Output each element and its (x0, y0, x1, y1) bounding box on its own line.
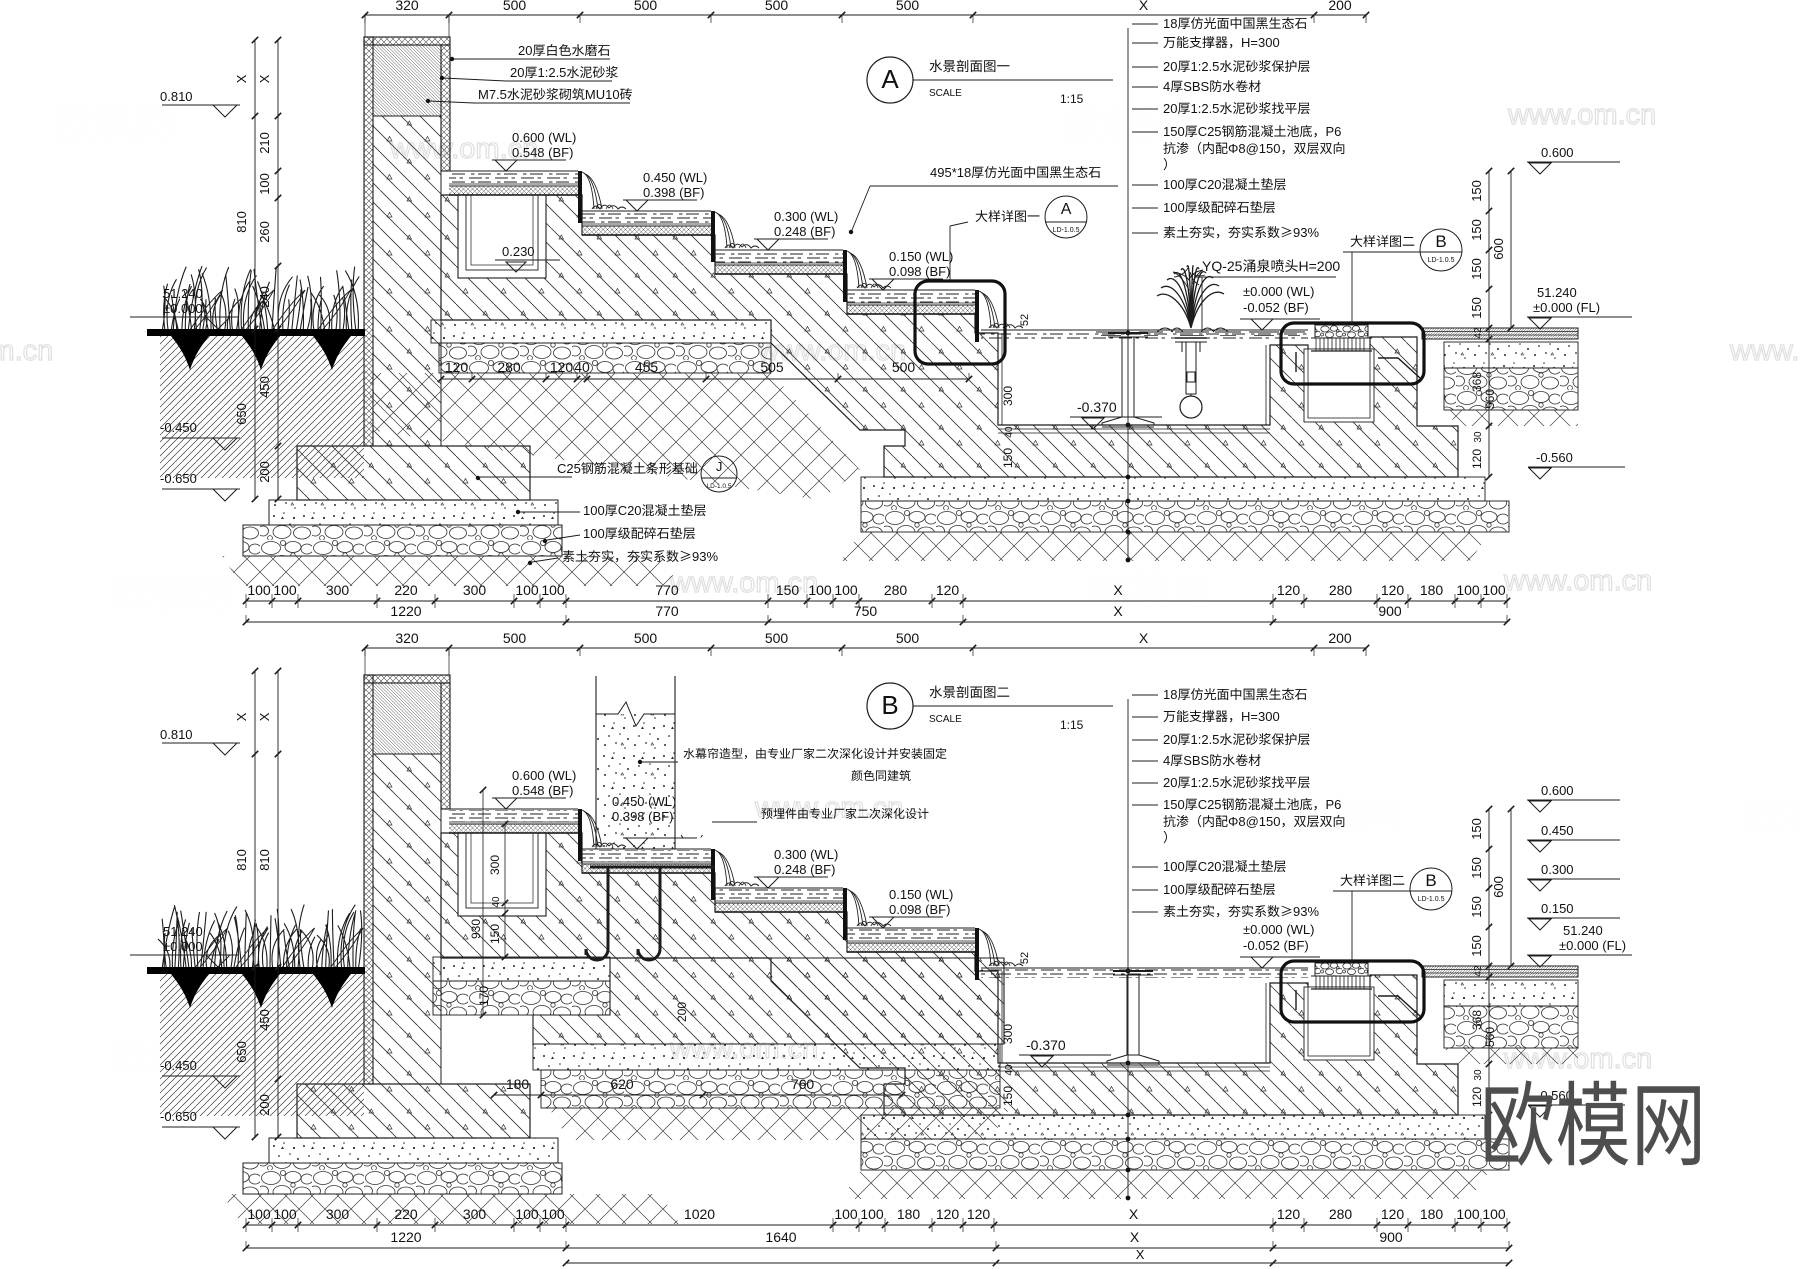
right level 0.600 (1541, 145, 1574, 160)
upper zone gravel cushion (439, 343, 771, 373)
svg-text:120: 120 (1470, 1087, 1484, 1107)
detail box 大样详图二 (1281, 961, 1424, 1022)
svg-text:X: X (257, 74, 272, 83)
detail bubble B (1420, 229, 1462, 271)
svg-text:42: 42 (1473, 965, 1484, 977)
detail box internal leaders (1295, 990, 1297, 1010)
svg-text:30: 30 (1473, 1069, 1484, 1081)
svg-text:150: 150 (1469, 258, 1484, 280)
B level-2 concrete cushion (533, 1044, 1000, 1070)
svg-text:51.240: 51.240 (163, 924, 203, 939)
rammed soil under footing (222, 1194, 680, 1224)
svg-text:C20: C20 (1198, 177, 1222, 192)
level -0.370 pool floor (1077, 399, 1117, 415)
svg-text:20: 20 (1163, 101, 1177, 116)
pool level ±0.000 (1240, 318, 1320, 320)
svg-text:X: X (1130, 1229, 1140, 1245)
svg-text:100: 100 (273, 1206, 297, 1222)
svg-text:900: 900 (1379, 1229, 1403, 1245)
svg-text:240: 240 (257, 286, 272, 308)
svg-text:210: 210 (257, 132, 272, 154)
svg-text:LD-1.0.5: LD-1.0.5 (1428, 257, 1455, 264)
B level-2 rammed soil (549, 1108, 1010, 1140)
right vertical dimension chain (1488, 809, 1490, 1115)
retaining wall cladding (20厚白色水磨石) (364, 675, 450, 683)
svg-text:1:2.5: 1:2.5 (1191, 775, 1220, 790)
level -0.450 (160, 420, 197, 435)
drawing title (867, 57, 913, 103)
svg-text:SCALE: SCALE (929, 714, 962, 725)
svg-text:300: 300 (1001, 386, 1015, 406)
left vertical dimension chain (254, 671, 256, 1137)
svg-text:600: 600 (1491, 238, 1506, 260)
pool zone rammed soil (841, 1170, 1490, 1199)
svg-text:52: 52 (1019, 952, 1031, 964)
svg-text:150: 150 (1163, 124, 1185, 139)
svg-text:±0.000: ±0.000 (163, 301, 203, 316)
fountain nozzle and pipe (1186, 342, 1196, 394)
svg-text:120: 120 (550, 359, 574, 375)
svg-text:810: 810 (257, 849, 272, 871)
B: mid horizontal dims (494, 1094, 902, 1096)
svg-text:180: 180 (1420, 582, 1444, 598)
svg-text:100: 100 (247, 582, 271, 598)
svg-text:150: 150 (1469, 297, 1484, 319)
waterfall spill edge (578, 809, 582, 861)
level 0.810 (160, 727, 193, 742)
universal pedestal support (1113, 970, 1153, 972)
svg-text:770: 770 (655, 582, 679, 598)
right level -0.560 (1536, 1088, 1573, 1103)
svg-text:750: 750 (854, 603, 878, 619)
svg-text:300: 300 (488, 855, 502, 875)
level 0.600 WL (492, 797, 566, 799)
svg-text:M7.5: M7.5 (478, 87, 507, 102)
svg-text:120: 120 (1277, 1206, 1301, 1222)
svg-text:20: 20 (1163, 732, 1177, 747)
svg-text:150: 150 (1001, 1086, 1015, 1106)
svg-text:0.450 (WL): 0.450 (WL) (643, 170, 707, 185)
basin-1 trough void (458, 195, 546, 278)
level 0.810 (160, 89, 193, 104)
svg-text:220: 220 (394, 582, 418, 598)
right pavement gravel base (1444, 1006, 1578, 1048)
level 51.240 ground (163, 924, 203, 939)
svg-text:0.150 (WL): 0.150 (WL) (889, 887, 953, 902)
pool zone concrete cushion (861, 1115, 1485, 1139)
svg-text:-0.650: -0.650 (160, 1109, 197, 1124)
svg-text:150: 150 (1469, 896, 1484, 918)
svg-text:www.om.cn: www.om.cn (1507, 99, 1656, 131)
svg-text:www.om.cn: www.om.cn (1729, 335, 1800, 367)
pool interior lining (998, 1066, 1270, 1068)
B level-1 concrete cushion (433, 957, 610, 981)
svg-text:100: 100 (273, 582, 297, 598)
svg-text:180: 180 (506, 1076, 530, 1092)
cascade basin water (449, 172, 578, 184)
A: 0.230 trough level (502, 244, 535, 259)
float ball (1180, 396, 1202, 418)
svg-text:-0.052 (BF): -0.052 (BF) (1243, 300, 1309, 315)
cascade basin stone lining (582, 226, 711, 235)
stepped reinforced concrete slab (441, 833, 1458, 1115)
svg-text:120: 120 (445, 359, 469, 375)
A: 495*18 stone label (930, 165, 1100, 180)
svg-text:120: 120 (936, 1206, 960, 1222)
svg-text:42: 42 (1473, 327, 1484, 339)
svg-text:0.600 (WL): 0.600 (WL) (512, 768, 576, 783)
svg-text:93%: 93% (692, 549, 718, 564)
A: footing labels (557, 461, 697, 476)
footing gravel cushion 100厚级配碎石 (243, 1163, 562, 1194)
svg-text:P6: P6 (1326, 124, 1342, 139)
svg-text:0.450: 0.450 (1541, 823, 1574, 838)
svg-text:B: B (881, 690, 898, 720)
pool zone gravel cushion (861, 1139, 1509, 1170)
svg-text:Φ8@150: Φ8@150 (1228, 141, 1281, 156)
svg-text:C20: C20 (1198, 859, 1222, 874)
right pavement rammed soil (1444, 410, 1578, 426)
svg-text:-0.370: -0.370 (1077, 399, 1117, 415)
svg-text:1020: 1020 (684, 1206, 715, 1222)
svg-text:300: 300 (463, 582, 487, 598)
level 0.150 WL (869, 916, 943, 918)
svg-text:J: J (716, 459, 723, 474)
grass planting (158, 905, 362, 970)
level 0.300 WL (754, 238, 828, 240)
svg-text:495*18: 495*18 (930, 165, 971, 180)
level -0.370 pool floor (1026, 1037, 1066, 1053)
right pavement rammed soil (1444, 1048, 1578, 1064)
cascade basin water (847, 929, 975, 941)
svg-text:YQ-25: YQ-25 (1202, 258, 1243, 274)
svg-text:150: 150 (1163, 797, 1185, 812)
svg-text:B: B (1435, 232, 1446, 251)
level 0.450 WL (623, 199, 697, 201)
B level-2 gravel cushion (541, 1070, 1000, 1108)
svg-text:-0.650: -0.650 (160, 471, 197, 486)
B: bottom dimension chains (246, 1224, 1507, 1226)
cascade basin water (582, 212, 711, 224)
svg-text:220: 220 (394, 1206, 418, 1222)
waterfall spill edge (711, 849, 715, 900)
svg-text:150: 150 (1469, 219, 1484, 241)
right pavement surface stone (1422, 966, 1578, 977)
rammed soil under footing (222, 556, 680, 586)
svg-text:900: 900 (1378, 603, 1402, 619)
soil section left of wall (160, 973, 364, 1116)
right level 51.240 FL (1563, 923, 1603, 938)
svg-text:120: 120 (967, 1206, 991, 1222)
svg-text:0.398 (BF): 0.398 (BF) (643, 185, 704, 200)
svg-text:500: 500 (503, 630, 527, 646)
svg-text:4: 4 (1163, 79, 1170, 94)
svg-text:300: 300 (326, 582, 350, 598)
svg-text:18: 18 (1163, 687, 1177, 702)
right pavement concrete base (1444, 342, 1578, 368)
svg-text:150: 150 (1469, 818, 1484, 840)
svg-text:170: 170 (477, 986, 491, 1006)
pool zone gravel cushion (861, 501, 1509, 532)
svg-text:0.600: 0.600 (1541, 145, 1574, 160)
svg-text:500: 500 (634, 0, 658, 13)
svg-text:C25: C25 (557, 461, 581, 476)
svg-text:0.098 (BF): 0.098 (BF) (889, 902, 950, 917)
turf soil bar and roots (171, 974, 209, 1008)
svg-text:1:15: 1:15 (1060, 92, 1084, 106)
svg-text:320: 320 (395, 0, 419, 13)
svg-text:600: 600 (1491, 876, 1506, 898)
svg-text:±0.000 (WL): ±0.000 (WL) (1243, 284, 1314, 299)
svg-text:4: 4 (1163, 753, 1170, 768)
wall concrete stem (373, 754, 441, 1084)
svg-text:100: 100 (515, 582, 539, 598)
svg-text:C25: C25 (1198, 797, 1222, 812)
svg-text:A: A (881, 64, 899, 94)
svg-text:SCALE: SCALE (929, 88, 962, 99)
pool water surface (981, 331, 1308, 340)
svg-text:100: 100 (860, 1206, 884, 1222)
A: bottom dimension chains (246, 600, 1507, 602)
svg-text:MU10: MU10 (585, 87, 620, 102)
wall strip footing (297, 1084, 530, 1138)
svg-text:100: 100 (1163, 882, 1185, 897)
svg-text:100: 100 (1163, 200, 1185, 215)
A: YQ-25 fountain label (1202, 258, 1340, 274)
annotation list (1132, 23, 1158, 25)
svg-text:300: 300 (1001, 1024, 1015, 1044)
svg-text:±0.000 (FL): ±0.000 (FL) (1559, 938, 1626, 953)
svg-text:±0.000: ±0.000 (163, 939, 203, 954)
svg-text:500: 500 (892, 359, 916, 375)
svg-text:260: 260 (257, 221, 272, 243)
svg-text:100: 100 (583, 526, 605, 541)
svg-text:P6: P6 (1326, 797, 1342, 812)
annotation leader line (1127, 28, 1129, 560)
A: material leaders top (518, 43, 610, 58)
svg-text:X: X (1139, 630, 1149, 646)
svg-text:LD-1.0.5: LD-1.0.5 (1053, 227, 1080, 234)
svg-text:200: 200 (1328, 630, 1352, 646)
B: 0.450 label mask (604, 793, 732, 835)
svg-text:120: 120 (1381, 1206, 1405, 1222)
left vertical dimension chain (254, 40, 256, 499)
wall brick zone M7.5/MU10 (373, 45, 441, 116)
svg-text:0.300: 0.300 (1541, 862, 1574, 877)
B deep foundation block under curtain (533, 958, 1004, 1044)
svg-text:455: 455 (635, 359, 659, 375)
basin-1 trough void (458, 833, 546, 916)
cascade basin stone lining (449, 186, 578, 195)
svg-text:300: 300 (326, 1206, 350, 1222)
svg-text:120: 120 (1381, 582, 1405, 598)
svg-text:280: 280 (1329, 1206, 1353, 1222)
level -0.650 (160, 471, 197, 486)
svg-text:100: 100 (515, 1206, 539, 1222)
svg-text:0.810: 0.810 (160, 727, 193, 742)
svg-text:100: 100 (257, 173, 272, 195)
wall brick zone M7.5/MU10 (373, 683, 441, 754)
svg-text:500: 500 (503, 0, 527, 13)
svg-text:120: 120 (936, 582, 960, 598)
svg-text:1:2.5: 1:2.5 (1191, 59, 1220, 74)
svg-text:X: X (1129, 1206, 1139, 1222)
svg-text:51.240: 51.240 (1537, 285, 1577, 300)
svg-text:180: 180 (897, 1206, 921, 1222)
waterfall spill edge (975, 290, 979, 342)
waterfall spill edge (843, 888, 847, 940)
svg-text:760: 760 (791, 1076, 815, 1092)
svg-text:X: X (234, 712, 249, 721)
cascade basin stone lining (847, 943, 975, 952)
overflow channel lining (1304, 349, 1374, 422)
level 0.150 WL (869, 278, 943, 280)
svg-text:120: 120 (1277, 582, 1301, 598)
svg-text:Φ8@150: Φ8@150 (1228, 814, 1281, 829)
svg-text:1:2.5: 1:2.5 (1191, 101, 1220, 116)
svg-text:100: 100 (1163, 859, 1185, 874)
svg-text:H=300: H=300 (1241, 709, 1280, 724)
svg-text:0.600 (WL): 0.600 (WL) (512, 130, 576, 145)
svg-text:40: 40 (491, 896, 502, 908)
turf soil bar and roots (171, 336, 209, 370)
drawing title (867, 683, 913, 729)
svg-text:770: 770 (655, 603, 679, 619)
svg-text:X: X (257, 712, 272, 721)
cascade basin water (715, 889, 843, 901)
svg-text:150: 150 (488, 924, 502, 944)
pool zone concrete cushion (861, 477, 1485, 501)
svg-text:810: 810 (234, 211, 249, 233)
level 0.450 WL (623, 837, 697, 839)
cascade basin water (449, 810, 578, 822)
pool water surface (981, 969, 1308, 978)
svg-text:120: 120 (1470, 449, 1484, 469)
footing gravel cushion 100厚级配碎石 (243, 525, 562, 556)
cascade basin stone lining (847, 305, 975, 314)
B level-1 gravel cushion (433, 981, 610, 1015)
svg-text:150: 150 (1469, 180, 1484, 202)
level 0.600 WL (492, 159, 566, 161)
svg-text:150: 150 (1469, 935, 1484, 957)
svg-text:100: 100 (1482, 582, 1506, 598)
waterfall spill edge (711, 211, 715, 262)
svg-text:368: 368 (1470, 1010, 1484, 1030)
svg-text:20: 20 (510, 65, 524, 80)
svg-text:505: 505 (760, 359, 784, 375)
svg-text:C20: C20 (618, 503, 642, 518)
svg-text:A: A (1061, 201, 1072, 218)
svg-text:500: 500 (896, 630, 920, 646)
cascade basin stone lining (715, 265, 843, 274)
svg-text:51.240: 51.240 (1563, 923, 1603, 938)
svg-text:150: 150 (1001, 448, 1015, 468)
svg-text:C25: C25 (1198, 124, 1222, 139)
J-bolt anchor (586, 867, 608, 960)
svg-text:±0.000 (WL): ±0.000 (WL) (1243, 922, 1314, 937)
svg-text:650: 650 (234, 1041, 249, 1063)
level 51.240 ground (163, 286, 203, 301)
right level -0.560 (1536, 450, 1573, 465)
upper zone rammed soil (370, 373, 860, 500)
svg-text:100: 100 (247, 1206, 271, 1222)
svg-text:93%: 93% (1293, 225, 1319, 240)
cascade basin water (715, 251, 843, 263)
B: top dimension chain (365, 647, 1366, 649)
svg-text:LD-1.0.5: LD-1.0.5 (707, 483, 732, 490)
A: top dimension chain (365, 14, 1366, 16)
right level 51.240 FL (1537, 285, 1577, 300)
svg-text:280: 280 (884, 582, 908, 598)
right level 0.150 (1541, 901, 1574, 916)
svg-text:200: 200 (257, 461, 272, 483)
cascade basin stone lining (582, 864, 711, 873)
svg-text:X: X (234, 74, 249, 83)
svg-text:280: 280 (497, 359, 521, 375)
detail box 大样详图二 (1281, 323, 1424, 384)
svg-text:368: 368 (1470, 372, 1484, 392)
cascade basin water (582, 850, 711, 862)
svg-text:100: 100 (834, 1206, 858, 1222)
svg-text:20: 20 (1163, 59, 1177, 74)
svg-text:0.300 (WL): 0.300 (WL) (774, 847, 838, 862)
svg-text:-0.052 (BF): -0.052 (BF) (1243, 938, 1309, 953)
pebble grate (1315, 963, 1368, 976)
svg-text:20: 20 (518, 43, 532, 58)
svg-text:500: 500 (634, 630, 658, 646)
svg-text:450: 450 (257, 376, 272, 398)
svg-text:±0.000 (FL): ±0.000 (FL) (1533, 300, 1600, 315)
svg-text:200: 200 (1328, 0, 1352, 13)
turf line (147, 329, 365, 336)
B: trough mini dim lines (504, 824, 506, 957)
B: trough mini dims (488, 855, 502, 875)
fountain spray (1157, 266, 1224, 328)
overflow channel lining (1304, 987, 1374, 1060)
svg-text:51.240: 51.240 (163, 286, 203, 301)
annotation leader line (1127, 699, 1129, 1198)
svg-text:B: B (1425, 871, 1436, 890)
svg-text:52: 52 (1019, 314, 1031, 326)
svg-text:100: 100 (583, 503, 605, 518)
stepped reinforced concrete slab (441, 195, 1458, 477)
level -0.450 (160, 1058, 197, 1073)
grass planting (162, 266, 359, 332)
wall strip footing (297, 446, 530, 500)
svg-text:100: 100 (808, 582, 832, 598)
svg-text:-0.450: -0.450 (160, 420, 197, 435)
watermarks (58, 104, 172, 141)
footing concrete cushion 100厚C20 (269, 500, 558, 525)
svg-text:1:2.5: 1:2.5 (538, 65, 567, 80)
svg-text:0.098 (BF): 0.098 (BF) (889, 264, 950, 279)
svg-text:93%: 93% (1293, 904, 1319, 919)
universal pedestal support (1108, 332, 1148, 334)
svg-text:1640: 1640 (765, 1229, 796, 1245)
svg-text:300: 300 (463, 1206, 487, 1222)
cascade basin water (847, 291, 975, 303)
svg-text:X: X (1136, 1247, 1145, 1262)
upper zone concrete cushion (431, 320, 771, 343)
svg-text:560: 560 (1483, 389, 1497, 409)
pool interior lining (998, 428, 1270, 430)
B: water curtain column (596, 714, 675, 849)
svg-text:X: X (1139, 0, 1149, 13)
svg-text:40: 40 (1004, 426, 1015, 438)
svg-text:320: 320 (395, 630, 419, 646)
svg-text:1:2.5: 1:2.5 (1191, 732, 1220, 747)
footing concrete cushion 100厚C20 (269, 1138, 558, 1163)
